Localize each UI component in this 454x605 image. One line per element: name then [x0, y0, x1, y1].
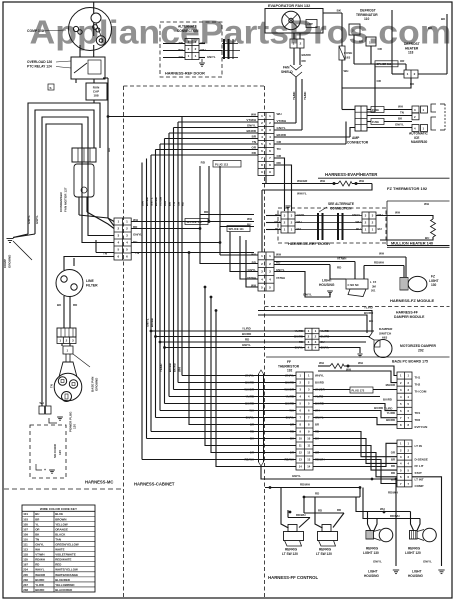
- svg-text:TN: TN: [35, 537, 39, 541]
- svg-text:WH: WH: [320, 179, 325, 183]
- svg-text:WH: WH: [178, 367, 182, 372]
- svg-text:YELLOW: YELLOW: [55, 522, 68, 526]
- svg-text:GREEN/YELLOW: GREEN/YELLOW: [55, 543, 79, 547]
- refrig light 120: [405, 528, 436, 555]
- compressor 103: [69, 3, 112, 58]
- svg-text:WH: WH: [395, 211, 400, 215]
- svg-text:110: 110: [364, 17, 369, 21]
- plug 113: [201, 161, 241, 168]
- svg-text:COMP: COMP: [3, 259, 7, 268]
- divider harness-mc bottom: [4, 488, 124, 490]
- svg-text:YL/RD: YL/RD: [387, 411, 395, 415]
- svg-text:TR2: TR2: [415, 418, 421, 422]
- trunk labels mid: [141, 197, 185, 206]
- svg-text:13: 13: [307, 458, 310, 462]
- svg-text:238: 238: [23, 588, 28, 592]
- wire BU row right: [131, 242, 220, 244]
- svg-text:TAN: TAN: [55, 537, 61, 541]
- svg-text:WHITE/ORANGE: WHITE/ORANGE: [55, 573, 78, 577]
- svg-text:LIGHT: LIGHT: [412, 570, 422, 574]
- wire loop 1: [28, 103, 100, 234]
- labels pc upper left: [374, 383, 395, 422]
- svg-text:RD: RD: [315, 492, 319, 496]
- label harness-ff damper: [394, 311, 425, 319]
- label fz thermistor 192: [387, 186, 428, 191]
- wire RD row right: [131, 228, 200, 230]
- svg-text:PLUG 172: PLUG 172: [352, 389, 365, 393]
- svg-text:LT INT: LT INT: [415, 478, 424, 482]
- wire RD run cap: [103, 78, 114, 226]
- connector ice maker pins: [412, 106, 428, 132]
- svg-text:HOUSING: HOUSING: [319, 283, 335, 287]
- labels damper far left: [242, 327, 251, 348]
- svg-text:VT/WH: VT/WH: [35, 553, 44, 557]
- svg-text:BU/RD: BU/RD: [245, 381, 254, 385]
- mullion heater 140: [376, 202, 436, 246]
- svg-text:WH/YL: WH/YL: [315, 374, 324, 378]
- pc board section border: [266, 356, 450, 358]
- labels pc lower left: [391, 451, 395, 482]
- splice 111 top: [354, 40, 406, 71]
- motorized damper 292: [374, 340, 436, 358]
- ice maker bracket: [431, 104, 445, 130]
- wire TN row: [96, 240, 254, 253]
- svg-text:234: 234: [23, 568, 28, 572]
- labels connector left: [103, 218, 142, 256]
- svg-text:GN/YL: GN/YL: [285, 416, 294, 420]
- connector bars mid: [295, 213, 362, 240]
- svg-text:BU/RD: BU/RD: [285, 381, 294, 385]
- amp connector: [347, 106, 369, 144]
- svg-text:BU: BU: [378, 227, 382, 231]
- refrig lt sw 120 b: [316, 525, 338, 556]
- svg-text:FAN MOTOR 127: FAN MOTOR 127: [64, 187, 68, 212]
- svg-text:FF LIT: FF LIT: [415, 464, 424, 468]
- overload / PTC relay box: [71, 57, 105, 83]
- svg-text:VT/WH: VT/WH: [246, 118, 256, 122]
- svg-text:CONDENSER: CONDENSER: [59, 191, 63, 212]
- svg-text:WH: WH: [35, 548, 40, 552]
- wire switch sw1 feeds: [281, 488, 310, 529]
- connector pc board lower: [397, 440, 412, 487]
- svg-text:BU/RD: BU/RD: [383, 398, 392, 402]
- svg-text:WH/YL: WH/YL: [297, 192, 307, 196]
- svg-text:AppliancePartsPros.com: AppliancePartsPros.com: [30, 14, 452, 51]
- svg-text:101: 101: [23, 512, 28, 516]
- svg-text:WH/OR: WH/OR: [35, 573, 46, 577]
- svg-text:COMP 103: COMP 103: [27, 29, 44, 33]
- svg-text:PLUG 113: PLUG 113: [215, 162, 229, 166]
- svg-text:RD: RD: [318, 509, 322, 513]
- connector power entry: [57, 328, 76, 346]
- wire mid feeds lower: [189, 253, 296, 467]
- svg-text:EVAPORATOR FAN 132: EVAPORATOR FAN 132: [268, 4, 310, 8]
- svg-text:RD/WH: RD/WH: [245, 458, 254, 462]
- label harness-mc: [85, 480, 113, 485]
- connector harness-mc: [114, 218, 131, 260]
- svg-text:GN/YL: GN/YL: [150, 197, 154, 206]
- svg-text:RD: RD: [73, 303, 77, 307]
- svg-text:14: 14: [299, 465, 302, 469]
- wire light row 2: [274, 257, 404, 280]
- svg-text:AMP: AMP: [307, 22, 313, 26]
- svg-text:WH: WH: [356, 220, 361, 224]
- ground bracket: [49, 417, 63, 423]
- label harness-cabinet: [134, 482, 175, 487]
- connector ref door top: [163, 39, 222, 60]
- svg-text:GN/YL: GN/YL: [35, 215, 39, 224]
- trunk fanout top: [107, 115, 258, 155]
- svg-text:MH/OR: MH/OR: [386, 383, 395, 387]
- svg-text:135: 135: [23, 558, 28, 562]
- wire or down: [367, 64, 382, 112]
- svg-text:130: 130: [422, 140, 428, 144]
- svg-text:BLACK: BLACK: [55, 532, 66, 536]
- wire ref door stubs: [266, 216, 281, 230]
- wire fz thermistor: [262, 176, 372, 253]
- svg-text:RD/WH: RD/WH: [285, 458, 294, 462]
- svg-text:118: 118: [23, 553, 28, 557]
- svg-text:WH: WH: [358, 361, 363, 365]
- svg-text:WH/OR: WH/OR: [244, 388, 254, 392]
- svg-text:RD/WH: RD/WH: [296, 513, 305, 517]
- connector damper mid: [294, 328, 329, 350]
- svg-text:118: 118: [408, 51, 413, 55]
- splice 111 a: [185, 219, 208, 225]
- fuse 163: [337, 9, 353, 61]
- svg-text:GN/YL: GN/YL: [207, 55, 216, 59]
- svg-text:RED/WHITE: RED/WHITE: [55, 558, 71, 562]
- defrost terminator 110: [349, 9, 378, 65]
- svg-text:FUSE: FUSE: [372, 108, 379, 112]
- svg-text:235: 235: [23, 573, 28, 577]
- svg-text:BLUE: BLUE: [55, 512, 63, 516]
- svg-text:663: 663: [382, 336, 387, 340]
- svg-text:TH COM: TH COM: [415, 390, 427, 394]
- svg-text:TN: TN: [252, 140, 256, 144]
- svg-text:WH: WH: [249, 409, 254, 413]
- svg-text:C NO NC: C NO NC: [348, 283, 359, 287]
- svg-text:188: 188: [93, 94, 98, 98]
- svg-text:DAMPER MODULE: DAMPER MODULE: [394, 315, 425, 319]
- svg-text:YL/RD: YL/RD: [364, 306, 373, 310]
- wire loop 4: [46, 124, 114, 402]
- damper switch 663: [369, 327, 393, 340]
- harness-ref door box top: [160, 22, 222, 77]
- fz light 130: [400, 275, 439, 292]
- svg-text:YL/RD: YL/RD: [242, 327, 251, 331]
- svg-text:TN: TN: [400, 111, 404, 115]
- refrig light 130: [363, 528, 393, 555]
- ground ref door top: [199, 59, 205, 66]
- svg-text:WH: WH: [398, 105, 403, 109]
- divider harness-cabinet: [264, 86, 266, 597]
- connector cabinet mid: [296, 372, 313, 470]
- svg-text:GROUND: GROUND: [8, 254, 12, 268]
- labels cabinet mid right: [315, 374, 325, 462]
- svg-text:WH/YL: WH/YL: [285, 374, 294, 378]
- wire wh fuse down: [342, 60, 355, 110]
- svg-text:GN/YL: GN/YL: [247, 123, 256, 127]
- svg-text:YL/RD: YL/RD: [292, 92, 296, 100]
- svg-text:EVP FAN: EVP FAN: [415, 425, 428, 429]
- svg-text:HOUSING: HOUSING: [408, 574, 423, 578]
- svg-text:WH/YL: WH/YL: [245, 374, 254, 378]
- label compressor: [27, 29, 66, 33]
- light housing grounds: [364, 560, 445, 578]
- defrost heater 118: [404, 42, 420, 55]
- label harness-evap/heater: [318, 172, 450, 178]
- connector evap-heater: [258, 113, 274, 176]
- label harness-ff control: [268, 575, 319, 580]
- svg-text:GN/YL: GN/YL: [352, 213, 361, 217]
- svg-text:105: 105: [23, 522, 28, 526]
- svg-text:BAZE PC BOARD 175: BAZE PC BOARD 175: [392, 360, 428, 364]
- svg-text:RD: RD: [181, 202, 185, 206]
- svg-text:TH1: TH1: [415, 376, 421, 380]
- svg-text:FZ THERMISTOR 192: FZ THERMISTOR 192: [387, 186, 428, 191]
- terminal S box: [48, 84, 54, 90]
- label overload ptc: [27, 60, 71, 69]
- svg-text:GN/YL: GN/YL: [27, 215, 31, 224]
- svg-text:YELLOW/RED: YELLOW/RED: [55, 583, 74, 587]
- so cord dashed box: [30, 425, 66, 478]
- svg-text:BU/RD: BU/RD: [150, 318, 154, 327]
- svg-text:BK/RD: BK/RD: [173, 363, 177, 372]
- svg-text:BK/RD: BK/RD: [386, 418, 395, 422]
- svg-text:LT IN: LT IN: [415, 444, 422, 448]
- svg-text:+: +: [44, 468, 46, 472]
- svg-text:FZ: FZ: [373, 280, 377, 284]
- svg-text:L: L: [370, 280, 372, 284]
- edge connector cabinet: [259, 370, 264, 466]
- svg-text:WH: WH: [251, 112, 256, 116]
- svg-text:12: 12: [307, 451, 310, 455]
- svg-text:BLACK/RED: BLACK/RED: [55, 588, 72, 592]
- wire rd/wh bottom: [265, 483, 360, 498]
- svg-text:YL/RD: YL/RD: [286, 395, 294, 399]
- svg-text:RD/WH: RD/WH: [390, 514, 399, 518]
- label harness-fz module: [265, 298, 450, 307]
- trunk wire bundle: [142, 117, 182, 460]
- svg-text:130: 130: [431, 283, 437, 287]
- svg-text:HARNESS-CABINET: HARNESS-CABINET: [134, 482, 175, 487]
- svg-text:BU: BU: [250, 437, 254, 441]
- wire light rows feed: [200, 229, 258, 288]
- svg-text:VIOLET/WHITE: VIOLET/WHITE: [55, 553, 76, 557]
- svg-text:BR: BR: [315, 423, 319, 427]
- svg-text:BK/RD: BK/RD: [285, 402, 294, 406]
- connector defrost 1-2: [404, 70, 418, 78]
- wire light rows rdwh: [363, 488, 420, 532]
- svg-text:103: 103: [23, 517, 28, 521]
- svg-text:GN/YL: GN/YL: [247, 268, 256, 272]
- svg-text:WH: WH: [163, 201, 167, 206]
- splice 111 b: [227, 226, 250, 232]
- svg-text:OR: OR: [177, 202, 181, 206]
- trunk labels low: [146, 318, 182, 372]
- wire mid vertical c: [220, 166, 258, 255]
- svg-text:SPLICE 111: SPLICE 111: [377, 62, 392, 66]
- wire bk right: [418, 14, 447, 74]
- svg-text:BU/RD: BU/RD: [145, 197, 149, 206]
- svg-text:COMP: COMP: [415, 484, 424, 488]
- svg-text:WH/GR: WH/GR: [297, 179, 308, 183]
- svg-text:BU: BU: [356, 227, 360, 231]
- svg-text:VT/WH: VT/WH: [247, 276, 256, 280]
- svg-text:RD: RD: [302, 59, 306, 63]
- wire rows to ref door: [274, 158, 292, 211]
- label light housing fz: [319, 279, 335, 287]
- condenser fan motor 127: [72, 148, 96, 215]
- connector power single: [63, 346, 73, 354]
- svg-text:GROUND: GROUND: [95, 377, 99, 391]
- svg-text:HARNESS-FF CONTROL: HARNESS-FF CONTROL: [268, 575, 319, 580]
- comp ground: [3, 215, 39, 268]
- wire mid vertical b: [209, 166, 254, 222]
- svg-text:HARNESS-MC: HARNESS-MC: [85, 480, 113, 485]
- svg-text:YL/RD: YL/RD: [246, 395, 254, 399]
- svg-text:13: 13: [299, 458, 302, 462]
- svg-text:MOTORIZED DAMPER: MOTORIZED DAMPER: [400, 344, 436, 348]
- svg-text:WH: WH: [379, 252, 384, 256]
- svg-text:BK/RD: BK/RD: [154, 197, 158, 206]
- svg-text:GN/YL: GN/YL: [146, 318, 150, 327]
- svg-text:SPLICE 111: SPLICE 111: [229, 227, 245, 231]
- trunk labels top: [246, 112, 257, 155]
- svg-text:BU/RD: BU/RD: [168, 363, 172, 372]
- labels connector evap right: [277, 112, 287, 165]
- wire cascade to pc lower: [313, 432, 397, 484]
- svg-text:TN: TN: [277, 147, 281, 151]
- svg-text:GN/YL: GN/YL: [242, 343, 251, 347]
- svg-text:RD/WH: RD/WH: [388, 491, 398, 495]
- run capacitor 188: [86, 83, 107, 103]
- svg-text:REFRIG: REFRIG: [319, 548, 332, 552]
- line filter: [56, 257, 114, 329]
- svg-text:BK/RD: BK/RD: [245, 402, 254, 406]
- connector bars top: [222, 39, 240, 59]
- svg-text:WH: WH: [380, 507, 385, 511]
- svg-text:10: 10: [299, 437, 302, 441]
- svg-text:WH: WH: [344, 69, 349, 73]
- svg-text:RD: RD: [391, 464, 395, 468]
- svg-text:LIGHT 130: LIGHT 130: [363, 551, 379, 555]
- wire yl/rd pair: [274, 77, 307, 130]
- svg-text:111: 111: [23, 543, 28, 547]
- label alternate connection: [177, 25, 199, 33]
- svg-text:120: 120: [73, 424, 77, 429]
- svg-text:BU/RD: BU/RD: [364, 311, 373, 315]
- base pan ground label: [73, 354, 99, 392]
- svg-text:REFRIG: REFRIG: [285, 548, 298, 552]
- svg-text:109: 109: [23, 532, 28, 536]
- connector ref door left: [275, 212, 306, 233]
- wire light row 3 ground: [274, 272, 333, 298]
- wire bk left: [392, 10, 404, 74]
- mullion heater box: [387, 201, 450, 247]
- wire amp rows: [274, 105, 412, 145]
- divider top dashed: [124, 85, 265, 87]
- svg-text:197: 197: [23, 563, 28, 567]
- svg-text:BROWN: BROWN: [55, 517, 66, 521]
- svg-text:BK/RD: BK/RD: [247, 129, 257, 133]
- svg-text:14: 14: [307, 465, 310, 469]
- wire switch sw2 feeds: [304, 497, 344, 528]
- wire evap fan down: [294, 33, 311, 65]
- svg-text:VT/WH: VT/WH: [159, 197, 163, 206]
- svg-text:GN/YL: GN/YL: [303, 293, 312, 297]
- wire damper rows: [151, 331, 374, 357]
- watermark: [30, 14, 452, 51]
- svg-text:WH: WH: [40, 401, 44, 405]
- svg-text:CONNECTOR: CONNECTOR: [347, 140, 369, 144]
- svg-text:GN/YL: GN/YL: [373, 560, 382, 564]
- svg-text:RD: RD: [337, 508, 341, 512]
- label harness-ref door top: [165, 72, 205, 76]
- svg-text:107: 107: [23, 527, 28, 531]
- svg-text:BU/RD: BU/RD: [374, 406, 383, 410]
- fan shield: [281, 65, 302, 77]
- switch c-no-nc: [346, 279, 377, 297]
- svg-text:RD/WH: RD/WH: [35, 558, 45, 562]
- labels cabinet far left: [244, 374, 254, 462]
- evaporator fan 132: [265, 4, 323, 33]
- svg-text:RED: RED: [55, 563, 61, 567]
- svg-text:PTC RELAY 124: PTC RELAY 124: [27, 65, 52, 69]
- svg-text:FUSE: FUSE: [372, 120, 379, 124]
- svg-text:BU: BU: [35, 512, 39, 516]
- plug 172: [350, 387, 373, 393]
- wire color code key: [22, 505, 95, 592]
- ff thermistor wire: [318, 361, 397, 383]
- wire mid to pc rows: [313, 390, 397, 425]
- svg-text:TN: TN: [172, 202, 176, 206]
- svg-text:12: 12: [299, 451, 302, 455]
- wire loop 3: [42, 117, 114, 402]
- svg-text:S: S: [50, 86, 52, 90]
- svg-text:TR1: TR1: [415, 411, 421, 415]
- svg-text:BU: BU: [425, 236, 429, 240]
- svg-text:LIGHT 120: LIGHT 120: [405, 551, 421, 555]
- svg-text:HOUSING: HOUSING: [364, 574, 379, 578]
- svg-text:WH: WH: [346, 368, 351, 372]
- trunk fanout bottom: [142, 376, 296, 460]
- svg-text:BU/RD: BU/RD: [242, 332, 251, 336]
- svg-text:163: 163: [345, 56, 350, 60]
- svg-text:RD: RD: [250, 430, 254, 434]
- svg-text:GN/YL: GN/YL: [35, 543, 44, 547]
- power plug 120: [54, 354, 82, 432]
- svg-text:GN/YL: GN/YL: [423, 560, 432, 564]
- svg-text:237: 237: [23, 583, 28, 587]
- svg-text:GN/YL: GN/YL: [292, 474, 301, 478]
- connector ref door right: [352, 212, 383, 233]
- svg-text:WH/YL: WH/YL: [35, 568, 45, 572]
- wire loop 2: [35, 110, 94, 234]
- svg-text:GN/YL: GN/YL: [297, 213, 306, 217]
- wire left pair: [39, 384, 54, 414]
- svg-text:WH: WH: [297, 220, 302, 224]
- wire WH row right: [131, 221, 209, 223]
- harness-ref door box: [278, 208, 386, 243]
- svg-text:D-SENSE: D-SENSE: [415, 457, 428, 461]
- connector evap fan pins: [290, 39, 304, 48]
- svg-text:STAT: STAT: [415, 471, 423, 475]
- svg-text:RD: RD: [290, 430, 294, 434]
- svg-text:CONNECTION: CONNECTION: [177, 29, 199, 33]
- svg-text:BK/RD: BK/RD: [302, 53, 311, 57]
